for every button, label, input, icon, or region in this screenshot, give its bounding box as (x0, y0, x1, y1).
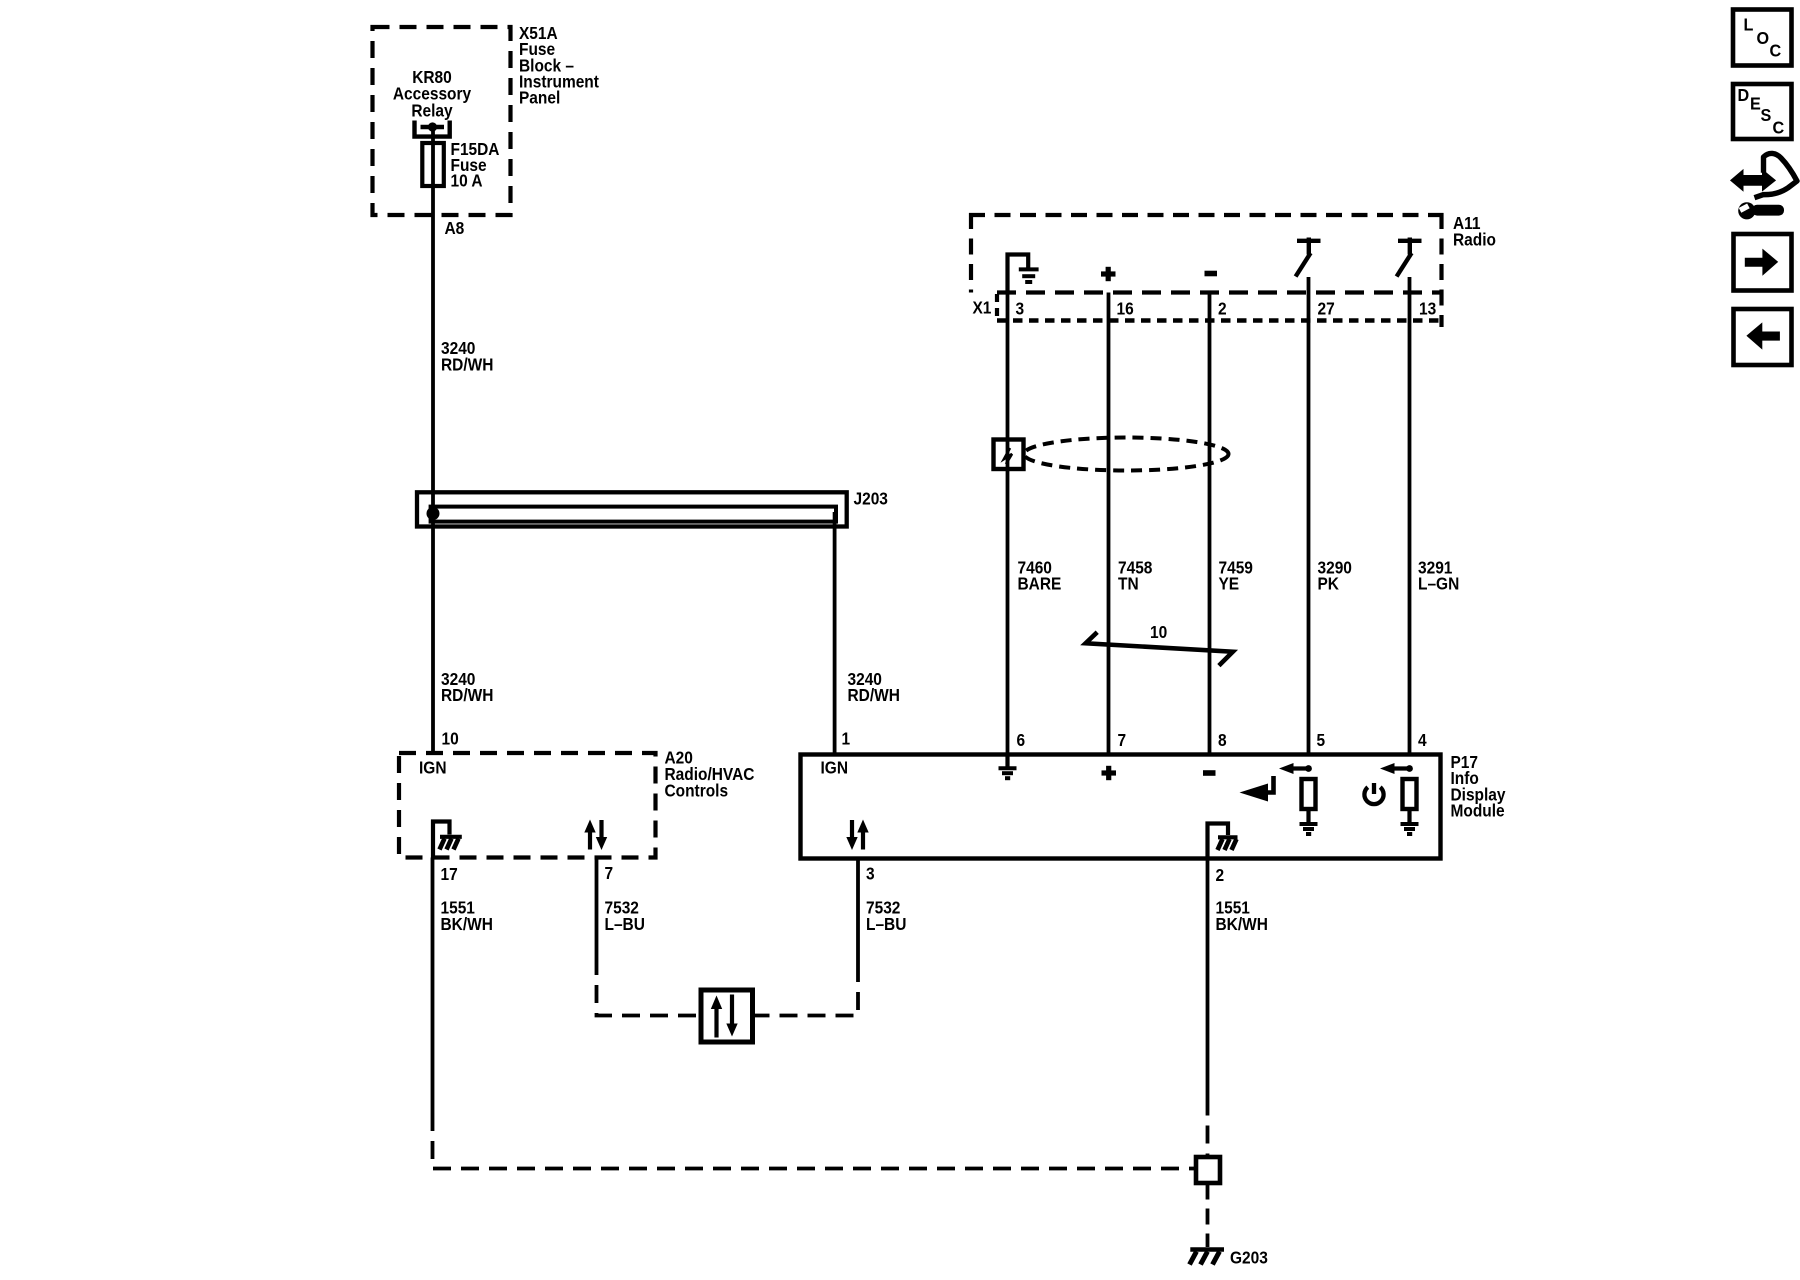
svg-text:8: 8 (1218, 730, 1227, 750)
svg-text:O: O (1757, 28, 1770, 48)
svg-text:C: C (1773, 118, 1785, 138)
svg-text:D: D (1738, 85, 1750, 105)
svg-text:RD/WH: RD/WH (848, 685, 900, 705)
svg-text:C: C (1770, 41, 1782, 61)
svg-text:3: 3 (1016, 298, 1025, 318)
svg-text:BK/WH: BK/WH (441, 914, 493, 934)
svg-text:17: 17 (441, 864, 458, 884)
svg-text:10: 10 (442, 728, 459, 748)
svg-text:Relay: Relay (411, 101, 453, 121)
svg-text:BK/WH: BK/WH (1216, 914, 1268, 934)
svg-text:L–BU: L–BU (605, 914, 645, 934)
svg-text:2: 2 (1218, 298, 1227, 318)
svg-text:Module: Module (1451, 801, 1505, 821)
svg-text:IGN: IGN (821, 757, 848, 777)
svg-text:10: 10 (1150, 622, 1167, 642)
svg-text:TN: TN (1118, 574, 1139, 594)
svg-text:2: 2 (1216, 865, 1225, 885)
svg-text:A8: A8 (445, 218, 465, 238)
svg-text:L: L (1744, 15, 1754, 35)
svg-text:L–BU: L–BU (866, 914, 906, 934)
svg-text:7: 7 (1118, 730, 1127, 750)
svg-text:S: S (1761, 105, 1772, 125)
svg-text:4: 4 (1418, 730, 1427, 750)
svg-text:27: 27 (1318, 298, 1335, 318)
svg-text:Panel: Panel (519, 87, 560, 107)
svg-text:L–GN: L–GN (1418, 574, 1459, 594)
svg-text:BARE: BARE (1018, 574, 1062, 594)
svg-text:5: 5 (1317, 730, 1326, 750)
svg-text:Controls: Controls (665, 780, 729, 800)
svg-text:PK: PK (1318, 574, 1339, 594)
svg-text:RD/WH: RD/WH (441, 354, 493, 374)
svg-text:RD/WH: RD/WH (441, 685, 493, 705)
svg-text:J203: J203 (854, 488, 888, 508)
svg-text:6: 6 (1017, 730, 1026, 750)
svg-text:7: 7 (605, 863, 614, 883)
svg-text:YE: YE (1219, 574, 1240, 594)
svg-text:13: 13 (1419, 298, 1436, 318)
svg-text:IGN: IGN (419, 757, 446, 777)
svg-text:3: 3 (866, 863, 875, 883)
svg-text:E: E (1750, 94, 1761, 114)
svg-text:10 A: 10 A (451, 170, 483, 190)
svg-text:Radio: Radio (1453, 229, 1496, 249)
svg-text:G203: G203 (1230, 1247, 1268, 1267)
svg-text:1: 1 (842, 728, 851, 748)
svg-text:X1: X1 (973, 297, 992, 317)
svg-text:16: 16 (1117, 298, 1134, 318)
